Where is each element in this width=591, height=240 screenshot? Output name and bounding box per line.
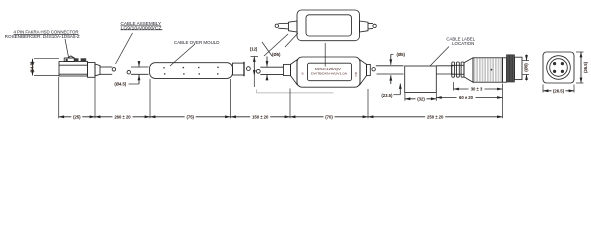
svg-text:(26.5): (26.5): [583, 61, 588, 73]
dimension 30 ± 3: [454, 82, 503, 92]
bottom dimension chain extension lines: [58, 77, 60, 118]
dimension (Ø5) right of module: [391, 52, 406, 84]
dimension 200 ± 20: [95, 114, 150, 119]
connector J1 (4 pin FAKRA HSD) body: [59, 56, 100, 77]
connector P2 dark band: [507, 55, 515, 82]
svg-text:(23.5): (23.5): [381, 93, 393, 98]
dimension (70): [290, 114, 368, 119]
svg-text:B: B: [301, 72, 305, 74]
svg-text:OB: OB: [354, 72, 358, 76]
wire: cable segment 2: [131, 67, 149, 74]
dimension 250 ± 20: [368, 114, 503, 119]
svg-text:(70): (70): [325, 114, 333, 119]
svg-text:(Ø9): (Ø9): [524, 63, 529, 72]
svg-text:M/SC126/QV: M/SC126/QV: [315, 67, 341, 71]
svg-text:DV/TBOXN-H/UV1.0A: DV/TBOXN-H/UV1.0A: [311, 72, 347, 76]
svg-text:(12): (12): [250, 47, 258, 52]
svg-text:150 ± 20: 150 ± 20: [252, 114, 269, 119]
dimension 60 ± 20: [436, 95, 502, 100]
svg-text:ROSENBERGER: D4S10A-1D6A5-Z: ROSENBERGER: D4S10A-1D6A5-Z: [5, 34, 80, 39]
svg-text:(14.5): (14.5): [30, 61, 35, 73]
label: 4 PIN FAKRA HSD CONNECTOR: [5, 30, 80, 39]
svg-text:LOCATION: LOCATION: [452, 41, 474, 46]
dimension 150 ± 20: [231, 114, 291, 119]
connector P2 tip: [515, 57, 523, 79]
leader over mould: [170, 44, 195, 66]
svg-text:(25): (25): [73, 114, 81, 119]
svg-text:(Ø5): (Ø5): [272, 52, 281, 57]
svg-text:(32): (32): [417, 96, 425, 101]
dimension (Ø5) left of module: [267, 52, 281, 81]
svg-text:(Ø4.5): (Ø4.5): [114, 82, 126, 87]
dimension (Ø9) tip: [523, 55, 530, 81]
svg-text:CABLE OVER MOULD: CABLE OVER MOULD: [174, 40, 220, 45]
sleeve after mould: [232, 62, 244, 76]
cable break hook left pair: [112, 68, 116, 72]
wire: cable segment 6: [436, 66, 453, 74]
end view square: [543, 52, 574, 83]
dimension (23.5): [381, 84, 400, 98]
wire: cable segment 5: [376, 66, 404, 74]
wire: cable segment 1: [100, 67, 112, 74]
dimension (26.5) vertical: [576, 52, 588, 83]
connector P2 knurled barrel: [473, 58, 503, 82]
leader cable label: [430, 47, 449, 67]
svg-text:250 ± 20: 250 ± 20: [427, 114, 444, 119]
cable break hook mid pair: [247, 67, 251, 71]
dimension (Ø4.5): [114, 62, 139, 87]
module top view: [275, 10, 376, 41]
svg-text:(75): (75): [186, 114, 194, 119]
gray artifact line: [257, 90, 334, 93]
connector P2 strain relief ribs: [452, 62, 464, 77]
connector J1 height dimension: [30, 59, 59, 76]
label: CABLE LABEL LOCATION: [446, 37, 475, 47]
dimension (25): [59, 114, 95, 119]
leader to connector J1: [65, 39, 69, 57]
connector P2 ring: [503, 58, 507, 82]
leader into module label: [324, 43, 326, 67]
leader cable assembly: [116, 33, 133, 64]
label: CABLE ASSEMBLY: [121, 21, 163, 30]
dimension (12): [250, 47, 258, 88]
wire: cable segment 4: [260, 67, 283, 74]
svg-text:260 ± 20: 260 ± 20: [114, 114, 131, 119]
cable label box: [405, 66, 437, 93]
svg-text:30 ± 3: 30 ± 3: [471, 87, 483, 92]
dimension (26.5) horizontal: [543, 85, 574, 94]
svg-text:(26.5): (26.5): [553, 88, 565, 93]
module side view: [284, 57, 376, 87]
dimension (32) label length: [405, 93, 436, 101]
connector P2 cone: [464, 58, 473, 82]
cable over mould body: [150, 63, 233, 79]
extension line connector end: [502, 84, 504, 119]
svg-text:(Ø5): (Ø5): [396, 52, 405, 57]
projection lines left of module: [264, 34, 288, 56]
dimension (75): [150, 114, 231, 119]
svg-text:60 ± 20: 60 ± 20: [459, 95, 474, 100]
